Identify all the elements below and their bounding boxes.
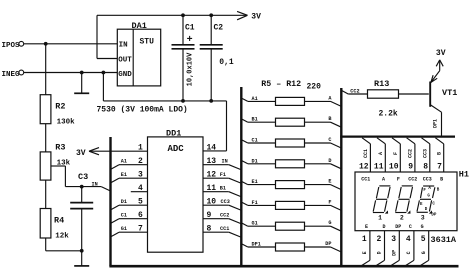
svg-text:B: B: [440, 177, 443, 183]
wire bus to H1 pin 10: [392, 138, 400, 172]
IC DD1 ADC: [148, 128, 204, 252]
wire bus to resistor R10: [241, 202, 275, 205]
svg-text:E: E: [328, 179, 331, 185]
H1 digit 1 glyph: [373, 186, 391, 213]
svg-text:C1: C1: [252, 138, 258, 144]
bus bottom horizontal: [109, 265, 458, 268]
node INEG/rail junction: [102, 71, 106, 75]
svg-text:12: 12: [359, 162, 369, 171]
svg-text:R2: R2: [55, 102, 65, 112]
bus mid vertical (DD1 to resistors): [240, 87, 242, 266]
svg-text:IN: IN: [92, 181, 98, 187]
resistor R9: [276, 181, 305, 189]
wire 3V rail: [97, 14, 248, 16]
wire DD1 pin 9 to bus: [203, 219, 241, 224]
svg-text:IN: IN: [222, 159, 228, 165]
svg-text:DP1: DP1: [433, 119, 439, 128]
svg-text:CC1: CC1: [220, 226, 229, 232]
svg-text:A1: A1: [121, 159, 127, 165]
resistor R10: [276, 201, 305, 209]
wire H1 pin 2 to bottom bus: [377, 231, 385, 266]
resistor R6: [276, 118, 305, 126]
svg-text:10: 10: [207, 197, 217, 206]
wire bus to H1 pin 8: [422, 138, 430, 172]
resistor R13: [368, 79, 399, 118]
resistor R8: [276, 160, 305, 168]
svg-text:8: 8: [423, 162, 428, 171]
svg-text:3V: 3V: [76, 149, 86, 158]
wire IPOS junction to R2: [45, 44, 47, 95]
node C1 bottom junction: [181, 99, 185, 103]
svg-text:CC2: CC2: [408, 149, 414, 158]
svg-text:5: 5: [138, 197, 143, 206]
svg-text:GND: GND: [118, 71, 132, 79]
wire bus to resistor R8: [241, 160, 275, 163]
svg-text:9: 9: [408, 162, 413, 171]
svg-text:10: 10: [389, 162, 399, 171]
svg-text:12k: 12k: [55, 232, 69, 240]
H1 digit 2 glyph: [395, 186, 413, 213]
H1 digit 1 decimal point mark: [385, 210, 388, 213]
pin 4 stub: [131, 191, 148, 193]
wire DD1 pin 6 from bus: [111, 219, 148, 224]
svg-text:+: +: [187, 35, 193, 46]
node C3/R4 bottom junction: [80, 249, 84, 253]
wire bus to H1 pin 9: [407, 138, 415, 172]
svg-text:VT1: VT1: [442, 88, 457, 98]
H1 digit 3 segment D: [417, 211, 428, 213]
svg-text:E1: E1: [121, 172, 127, 178]
wire R2 to R3: [45, 124, 47, 152]
svg-text:4: 4: [138, 184, 143, 193]
wire bus to resistor R11: [241, 223, 275, 226]
node C2 bottom junction: [209, 99, 213, 103]
svg-text:H1: H1: [459, 169, 469, 179]
svg-text:A: A: [378, 152, 384, 155]
wire R3 wiper tap: [51, 166, 101, 187]
wire resistor R7 to right bus: [305, 143, 342, 148]
power 3V arrow to pin 1: [76, 148, 148, 158]
H1 digit 2 decimal point mark: [407, 210, 410, 213]
svg-text:D: D: [382, 224, 385, 230]
H1 digit 3 DP mark: [429, 210, 432, 213]
wire bus to resistor R7: [241, 140, 275, 143]
H1 digit 3 segment A: [423, 185, 434, 187]
svg-text:5: 5: [421, 235, 426, 244]
capacitor C1: [172, 15, 195, 101]
wire H1 pin 3 to bottom bus: [391, 231, 399, 266]
svg-text:F: F: [397, 177, 400, 183]
svg-text:G: G: [421, 251, 427, 254]
wire resistor R11 to right bus: [305, 226, 342, 231]
svg-text:B: B: [436, 152, 442, 155]
svg-text:4: 4: [406, 235, 411, 244]
svg-text:220: 220: [307, 82, 322, 91]
svg-text:G: G: [328, 220, 331, 226]
svg-text:DA1: DA1: [132, 21, 147, 31]
resistor R11: [276, 222, 305, 230]
svg-text:130k: 130k: [57, 119, 76, 127]
bus right vertical (resistors to display): [340, 88, 342, 266]
svg-text:DP: DP: [325, 241, 331, 247]
H1 digit 3 segment F: [421, 187, 423, 198]
resistor R2: [40, 95, 75, 127]
wire bus to resistor R12: [241, 244, 275, 247]
ground symbol at INEG: [74, 73, 89, 94]
svg-text:2: 2: [376, 235, 381, 244]
svg-text:IN: IN: [119, 41, 128, 49]
svg-text:B: B: [328, 116, 331, 122]
svg-text:E1: E1: [252, 179, 258, 185]
svg-text:A1: A1: [252, 96, 258, 102]
svg-text:E: E: [362, 251, 368, 254]
svg-text:11: 11: [374, 162, 384, 171]
wire resistor R12 to right bus: [305, 247, 342, 252]
svg-text:6: 6: [138, 211, 143, 220]
wire R3 to R4: [45, 180, 47, 208]
svg-text:G: G: [421, 224, 424, 230]
svg-text:ADC: ADC: [168, 144, 185, 154]
svg-text:CC1: CC1: [363, 149, 369, 158]
wire DD1 pin 2 from bus: [111, 165, 148, 170]
svg-text:7: 7: [437, 162, 442, 171]
svg-text:G1: G1: [121, 226, 127, 232]
svg-text:R13: R13: [374, 79, 389, 89]
svg-text:CC2: CC2: [408, 177, 417, 183]
svg-text:CC3: CC3: [423, 177, 432, 183]
svg-text:OUT: OUT: [118, 56, 132, 64]
svg-text:3V: 3V: [251, 13, 261, 22]
wire H1 pin 4 to bottom bus: [406, 231, 414, 266]
voltage regulator DA1: [117, 21, 160, 86]
svg-text:9: 9: [207, 211, 212, 220]
wire bus to H1 pin 11: [377, 138, 385, 172]
svg-text:B1: B1: [252, 117, 258, 123]
svg-text:1: 1: [362, 235, 367, 244]
wire DD1 pin 3 from bus: [111, 178, 148, 183]
resistor R7: [276, 139, 305, 147]
ground symbol at C3: [74, 251, 89, 266]
svg-text:11: 11: [207, 184, 217, 193]
resistor R12: [276, 243, 305, 251]
svg-text:3631A: 3631A: [431, 235, 457, 245]
H1 digit 3 segment E: [417, 200, 419, 211]
svg-text:C: C: [328, 137, 331, 143]
wire bus to resistor R5: [241, 98, 275, 101]
capacitor C3: [70, 172, 93, 251]
svg-text:3V: 3V: [436, 49, 446, 58]
svg-text:F1: F1: [252, 200, 258, 206]
node C3 top junction: [80, 185, 84, 189]
wire DD1 pin 13 to bus: [203, 165, 241, 170]
svg-text:1: 1: [378, 214, 382, 221]
wire resistor R10 to right bus: [305, 205, 342, 210]
svg-text:12: 12: [207, 170, 217, 179]
svg-text:DP1: DP1: [252, 242, 261, 248]
wire IN into left bus: [101, 187, 110, 191]
wire bus to H1 pin 7: [435, 138, 443, 172]
svg-text:14: 14: [207, 143, 217, 152]
transistor VT1: [430, 60, 457, 136]
svg-text:R3: R3: [55, 142, 65, 152]
terminal IPOS: [2, 41, 24, 50]
svg-text:C3: C3: [78, 172, 88, 182]
capacitor C2: [200, 15, 234, 101]
wire bus to resistor R6: [241, 119, 275, 122]
wire DD1 pin 5 from bus: [111, 205, 148, 210]
svg-text:7: 7: [138, 224, 143, 233]
wire resistor R9 to right bus: [305, 185, 342, 190]
H1 digit 3 segment G: [420, 198, 431, 200]
svg-text:DP: DP: [392, 250, 398, 256]
svg-text:DD1: DD1: [166, 128, 181, 138]
svg-text:R5 – R12: R5 – R12: [261, 80, 301, 89]
wire DA1 OUT to 3V rail: [97, 15, 117, 58]
svg-text:0,1: 0,1: [219, 58, 234, 67]
wire bus to resistor R9: [241, 181, 275, 184]
wire H1 pin 5 to bottom bus: [421, 231, 429, 266]
wire ground rail under capacitors: [103, 73, 226, 101]
wire R4 to bottom node: [46, 238, 82, 251]
svg-text:F1: F1: [220, 172, 226, 178]
wire DD1 pin 11 to bus: [203, 192, 241, 197]
svg-text:3: 3: [391, 235, 396, 244]
svg-text:INEG: INEG: [2, 71, 21, 79]
svg-text:IPOS: IPOS: [2, 42, 21, 50]
node INEG/ground junction: [80, 71, 84, 75]
svg-text:1: 1: [138, 143, 143, 152]
svg-text:C2: C2: [214, 23, 224, 32]
wire resistor R6 to right bus: [305, 122, 342, 127]
wire H1 pin 1 to bottom bus: [362, 231, 370, 266]
svg-text:CC2: CC2: [350, 89, 359, 95]
svg-text:R4: R4: [54, 215, 64, 225]
svg-text:13: 13: [207, 157, 217, 166]
svg-text:10,0x10V: 10,0x10V: [187, 52, 195, 86]
resistor R5: [276, 97, 305, 105]
wire bus to H1 pin 12: [362, 138, 370, 172]
svg-text:B1: B1: [220, 186, 226, 192]
wire bus to R13: [341, 90, 367, 94]
H1 digit 3 segment B: [433, 187, 435, 198]
svg-text:7530 (3V 100mA LDO): 7530 (3V 100mA LDO): [97, 106, 188, 115]
wire DD1 pin 7 from bus: [111, 232, 148, 237]
resistor R3: [40, 142, 70, 180]
svg-text:CC3: CC3: [423, 149, 429, 158]
svg-text:CC1: CC1: [361, 177, 370, 183]
indicator H1 body: [355, 169, 469, 230]
svg-text:G1: G1: [252, 221, 258, 227]
wire resistor R8 to right bus: [305, 164, 342, 169]
wire R13 to VT1 base: [399, 93, 429, 95]
svg-text:8: 8: [207, 224, 212, 233]
wire IPOS to DA1 IN: [24, 43, 117, 45]
svg-text:2: 2: [138, 157, 143, 166]
wire ground rail to DD1 pin 14: [203, 101, 227, 151]
svg-text:C: C: [406, 251, 412, 254]
svg-text:C1: C1: [121, 213, 127, 219]
svg-text:DP: DP: [395, 224, 401, 230]
H1 digit 3 segment C: [429, 200, 431, 211]
svg-text:C1: C1: [185, 23, 195, 32]
svg-text:STU: STU: [140, 37, 155, 46]
bus left vertical: [109, 137, 111, 266]
svg-text:DP: DP: [431, 213, 437, 217]
resistor R4: [40, 209, 69, 241]
node C1 top junction: [181, 13, 185, 17]
svg-text:E: E: [365, 224, 368, 230]
node C2 top junction: [209, 13, 213, 17]
svg-text:D1: D1: [121, 199, 127, 205]
wire INEG to DA1 GND: [24, 72, 117, 74]
bus top horizontal (to display pins): [340, 135, 455, 137]
terminal INEG: [2, 70, 24, 79]
svg-text:D: D: [328, 158, 331, 164]
svg-text:F: F: [328, 199, 331, 205]
wire DD1 pin 10 to bus: [203, 205, 241, 210]
svg-text:CC3: CC3: [221, 199, 230, 205]
svg-text:A: A: [382, 177, 385, 183]
svg-text:CC2: CC2: [220, 213, 229, 219]
wire DD1 pin 8 to bus: [203, 232, 241, 237]
svg-text:D1: D1: [252, 158, 258, 164]
power 3V arrow (top rail): [237, 11, 261, 21]
svg-text:2.2k: 2.2k: [379, 109, 398, 118]
svg-text:3: 3: [421, 214, 425, 221]
wire DD1 pin 12 to bus: [203, 178, 241, 183]
svg-text:2: 2: [400, 214, 404, 221]
node IPOS/R2 junction: [44, 42, 48, 46]
wire resistor R5 to right bus: [305, 101, 342, 106]
svg-text:3: 3: [138, 170, 143, 179]
svg-text:D: D: [377, 251, 383, 254]
svg-text:F: F: [393, 152, 399, 155]
svg-text:C: C: [409, 224, 412, 230]
